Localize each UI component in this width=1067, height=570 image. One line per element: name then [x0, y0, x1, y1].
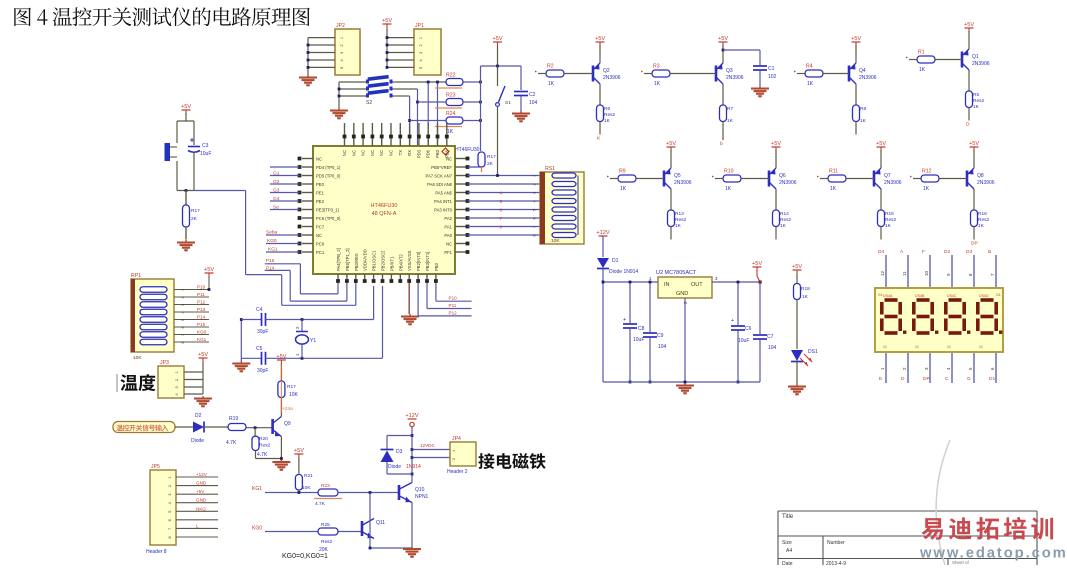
svg-text:PA3 INT0: PA3 INT0 [434, 208, 453, 213]
svg-text:F: F [922, 249, 925, 255]
svg-text:2N3906: 2N3906 [674, 180, 692, 186]
svg-text:1K: 1K [885, 223, 892, 229]
svg-text:GND: GND [196, 498, 207, 503]
svg-text:104: 104 [658, 344, 667, 350]
svg-text:PD6: PD6 [426, 149, 431, 158]
svg-text:10: 10 [924, 270, 929, 276]
svg-text:www.edatop.com: www.edatop.com [919, 546, 1067, 562]
svg-text:10uF: 10uF [633, 337, 644, 343]
svg-text:+5V: +5V [204, 267, 214, 273]
svg-text:3: 3 [419, 52, 423, 54]
svg-text:R18: R18 [801, 286, 810, 292]
svg-text:1K: 1K [654, 81, 661, 87]
svg-text:NC: NC [446, 242, 452, 247]
svg-text:1K: 1K [548, 81, 555, 87]
svg-text:1K: 1K [919, 67, 926, 73]
svg-text:C8: C8 [638, 326, 645, 332]
svg-text:B: B [988, 249, 991, 255]
svg-text:Header 2: Header 2 [447, 469, 468, 475]
svg-text:10K: 10K [133, 355, 142, 361]
svg-text:1K: 1K [725, 186, 732, 192]
svg-text:D1: D1 [612, 258, 619, 264]
svg-text:C2: C2 [529, 92, 536, 98]
svg-text:P10: P10 [449, 296, 458, 301]
svg-text:2N3906: 2N3906 [859, 75, 877, 81]
svg-text:3: 3 [340, 52, 344, 54]
svg-text:4: 4 [181, 311, 185, 313]
svg-text:+5V: +5V [851, 36, 861, 42]
svg-text:S1: S1 [505, 100, 511, 106]
svg-text:R12: R12 [922, 169, 932, 175]
svg-text:Title: Title [782, 514, 794, 520]
svg-text:NC: NC [446, 157, 452, 162]
svg-text:5: 5 [419, 67, 423, 69]
svg-text:R2: R2 [547, 64, 554, 70]
svg-text:1N914: 1N914 [406, 464, 421, 470]
svg-text:PB5[TP1_2]: PB5[TP1_2] [345, 248, 350, 271]
svg-text:Q11: Q11 [376, 520, 385, 526]
svg-text:L: L [196, 523, 199, 528]
svg-text:R20: R20 [259, 436, 268, 442]
svg-text:1K: 1K [807, 81, 814, 87]
svg-text:DS4C: DS4C [947, 294, 957, 298]
svg-text:P12: P12 [449, 310, 458, 315]
svg-text:OUT: OUT [691, 282, 703, 288]
svg-text:12: 12 [883, 345, 887, 349]
svg-text:4: 4 [533, 200, 537, 202]
svg-text:R3: R3 [653, 64, 660, 70]
svg-text:1: 1 [181, 289, 185, 291]
svg-text:JP5: JP5 [151, 464, 160, 470]
svg-text:R11: R11 [829, 169, 838, 175]
svg-text:R24: R24 [446, 111, 456, 117]
svg-text:2: 2 [175, 379, 179, 381]
svg-text:6: 6 [181, 326, 185, 328]
svg-text:P11: P11 [197, 292, 205, 297]
svg-text:+12V: +12V [405, 413, 418, 419]
svg-text:GND: GND [676, 291, 688, 297]
svg-text:PD5 (TP0_0): PD5 (TP0_0) [316, 174, 341, 179]
svg-text:PB0/RES: PB0/RES [354, 253, 359, 271]
svg-text:D2: D2 [195, 413, 202, 419]
svg-text:DP: DP [971, 241, 978, 247]
svg-text:+5V: +5V [876, 141, 886, 147]
svg-text:30pF: 30pF [257, 329, 268, 335]
svg-text:P14: P14 [266, 265, 275, 270]
svg-text:R14: R14 [780, 211, 789, 217]
svg-text:KG0=0,KG0=1: KG0=0,KG0=1 [282, 553, 328, 560]
svg-text:PA6 SDI AN6: PA6 SDI AN6 [427, 182, 452, 187]
svg-text:Q8: Q8 [977, 173, 984, 179]
svg-text:R7: R7 [727, 106, 733, 112]
svg-text:2013-4-9: 2013-4-9 [826, 561, 846, 565]
svg-text:R17: R17 [191, 208, 200, 214]
svg-text:DS4B: DS4B [915, 294, 925, 298]
svg-text:PC6 (TP0_0): PC6 (TP0_0) [316, 216, 341, 221]
svg-text:D: D [966, 122, 970, 128]
svg-text:JP3: JP3 [160, 360, 169, 366]
svg-text:C: C [945, 376, 949, 382]
svg-text:DP: DP [923, 376, 930, 382]
svg-text:+5V: +5V [181, 104, 191, 110]
svg-text:+5V: +5V [666, 141, 676, 147]
svg-text:DS4D: DS4D [979, 294, 989, 298]
svg-text:D: D [901, 376, 905, 382]
svg-text:▸: ▸ [906, 55, 908, 60]
svg-text:10uF: 10uF [738, 338, 749, 344]
svg-text:Q4: Q4 [859, 68, 866, 74]
svg-text:48 QFN-A: 48 QFN-A [372, 211, 397, 217]
svg-text:RS1: RS1 [545, 166, 555, 172]
svg-text:30pF: 30pF [257, 368, 268, 374]
svg-text:P15: P15 [197, 322, 206, 327]
svg-text:7: 7 [181, 334, 185, 336]
svg-text:P10: P10 [197, 285, 206, 290]
svg-text:G1: G1 [273, 171, 280, 177]
svg-text:PB5*VREF: PB5*VREF [431, 165, 452, 170]
svg-text:PA2: PA2 [444, 216, 452, 221]
svg-text:5: 5 [340, 67, 344, 69]
svg-text:NC: NC [370, 150, 375, 156]
svg-text:+24a: +24a [282, 406, 293, 412]
svg-text:PB3[INT1]: PB3[INT1] [425, 252, 430, 271]
svg-text:10K: 10K [551, 238, 560, 244]
svg-text:3: 3 [168, 494, 172, 496]
svg-text:Res2: Res2 [780, 217, 792, 223]
svg-text:6: 6 [533, 217, 537, 219]
svg-text:VSS/AVSS: VSS/AVSS [407, 250, 412, 271]
svg-text:Y1: Y1 [310, 338, 316, 344]
svg-text:10K: 10K [302, 485, 311, 491]
svg-text:D3: D3 [966, 249, 972, 255]
svg-text:2: 2 [533, 183, 537, 185]
svg-text:TX: TX [398, 150, 403, 156]
svg-text:12: 12 [947, 345, 951, 349]
svg-text:2N3906: 2N3906 [726, 75, 744, 81]
svg-text:1K: 1K [802, 294, 809, 300]
svg-text:PB2/OSC2: PB2/OSC2 [381, 250, 386, 271]
svg-text:R19: R19 [229, 416, 238, 422]
svg-text:4: 4 [419, 59, 423, 61]
svg-text:NC: NC [351, 150, 356, 156]
svg-text:C4: C4 [256, 307, 263, 313]
svg-text:VDDA/VDD: VDDA/VDD [363, 249, 368, 271]
svg-text:2K: 2K [487, 161, 494, 167]
svg-text:2: 2 [452, 458, 456, 460]
svg-text:R1: R1 [918, 50, 925, 56]
svg-text:Number: Number [827, 540, 845, 546]
svg-text:KG1: KG1 [252, 486, 262, 492]
svg-text:Q6: Q6 [779, 173, 786, 179]
svg-text:R17: R17 [287, 384, 296, 390]
svg-text:DS4A: DS4A [883, 294, 893, 298]
svg-text:PD4 (TP0_1): PD4 (TP0_1) [316, 165, 341, 170]
svg-text:PC0: PC0 [316, 242, 325, 247]
svg-text:R23: R23 [321, 483, 330, 489]
svg-text:JP2: JP2 [336, 23, 345, 29]
svg-text:3: 3 [181, 304, 185, 306]
svg-text:NC: NC [316, 157, 322, 162]
svg-text:2N3906: 2N3906 [884, 180, 902, 186]
svg-text:NC: NC [361, 150, 366, 156]
svg-text:HT46FU30: HT46FU30 [371, 203, 398, 209]
svg-text:NC: NC [379, 150, 384, 156]
svg-text:PA4 INT1: PA4 INT1 [434, 199, 453, 204]
svg-text:5: 5 [181, 319, 185, 321]
svg-text:D3: D3 [396, 449, 403, 455]
svg-text:G3: G3 [273, 188, 280, 194]
svg-text:3: 3 [533, 192, 537, 194]
svg-text:C1: C1 [768, 66, 775, 72]
svg-text:+5V: +5V [382, 18, 392, 24]
svg-text:JP1: JP1 [415, 23, 424, 29]
svg-text:1K: 1K [447, 129, 454, 135]
svg-text:Q5: Q5 [674, 173, 681, 179]
svg-text:Q2: Q2 [603, 68, 610, 74]
svg-text:S2: S2 [366, 100, 372, 106]
svg-text:R23: R23 [446, 93, 456, 99]
svg-text:5: 5 [533, 209, 537, 211]
svg-text:Seba: Seba [266, 230, 278, 236]
svg-text:C3: C3 [202, 143, 209, 149]
svg-text:Diode 1N914: Diode 1N914 [609, 269, 638, 275]
svg-text:4.7K: 4.7K [315, 501, 326, 507]
svg-text:12: 12 [979, 345, 983, 349]
svg-text:+5V: +5V [198, 352, 208, 358]
svg-text:IN: IN [664, 282, 670, 288]
svg-text:D1: D1 [989, 376, 995, 382]
svg-text:11: 11 [902, 271, 907, 276]
svg-text:+12V: +12V [196, 472, 208, 477]
svg-text:RP1: RP1 [131, 273, 141, 279]
svg-text:1K: 1K [860, 118, 867, 124]
svg-text:4: 4 [175, 393, 179, 395]
svg-text:6: 6 [168, 519, 172, 521]
svg-text:R21: R21 [304, 473, 313, 479]
svg-text:Q3: Q3 [726, 68, 733, 74]
svg-text:2: 2 [419, 44, 423, 46]
svg-text:A4: A4 [786, 548, 792, 554]
svg-text:PD3: PD3 [416, 149, 421, 158]
svg-text:b: b [720, 141, 723, 147]
svg-text:12VDC: 12VDC [420, 443, 435, 448]
svg-text:1: 1 [419, 37, 423, 39]
svg-text:PC1: PC1 [316, 250, 325, 255]
svg-text:7: 7 [533, 226, 537, 228]
svg-text:PB0: PB0 [434, 262, 439, 271]
svg-text:Q7: Q7 [884, 173, 891, 179]
svg-text:PB1/OSC1: PB1/OSC1 [372, 250, 377, 271]
svg-text:NPN1: NPN1 [415, 494, 429, 500]
svg-text:R15: R15 [885, 211, 894, 217]
svg-text:D4: D4 [878, 249, 884, 255]
svg-text:Q9: Q9 [284, 421, 291, 427]
svg-text:+5V: +5V [964, 22, 974, 28]
svg-text:Se: Se [273, 205, 279, 211]
svg-text:PC7: PC7 [316, 225, 325, 230]
svg-text:1: 1 [533, 175, 537, 177]
svg-text:R16: R16 [978, 211, 987, 217]
svg-text:▸: ▸ [794, 69, 796, 74]
svg-text:Res2: Res2 [604, 112, 616, 118]
svg-text:D2: D2 [944, 249, 950, 255]
svg-text:▸: ▸ [535, 69, 537, 74]
svg-text:C6: C6 [745, 326, 752, 332]
svg-text:PE3(TP3_1): PE3(TP3_1) [316, 208, 340, 213]
svg-text:4: 4 [340, 59, 344, 61]
svg-text:4: 4 [168, 502, 172, 504]
svg-text:2N3906: 2N3906 [977, 180, 995, 186]
svg-text:R4: R4 [806, 64, 813, 70]
svg-text:+5V: +5V [276, 354, 286, 360]
svg-text:R8: R8 [860, 106, 866, 112]
svg-text:▸: ▸ [641, 69, 643, 74]
svg-text:P14: P14 [197, 315, 206, 320]
svg-text:+5V: +5V [969, 141, 979, 147]
svg-text:▸: ▸ [910, 174, 912, 179]
svg-text:1K: 1K [620, 186, 627, 192]
svg-text:PA5 AN5: PA5 AN5 [435, 191, 452, 196]
svg-text:Q1: Q1 [972, 54, 979, 60]
svg-text:8: 8 [181, 341, 185, 343]
svg-text:G4: G4 [273, 196, 280, 202]
svg-text:1: 1 [168, 476, 172, 478]
svg-text:PA7 SCK AN7: PA7 SCK AN7 [426, 174, 453, 179]
svg-text:R13: R13 [675, 211, 684, 217]
svg-text:Res2: Res2 [978, 217, 990, 223]
svg-text:KG0: KG0 [267, 238, 277, 244]
svg-text:3: 3 [175, 386, 179, 388]
svg-text:Res2: Res2 [259, 443, 271, 449]
svg-text:2K: 2K [191, 216, 198, 222]
svg-text:PE1: PE1 [316, 191, 325, 196]
svg-text:PB3: PB3 [435, 149, 440, 158]
svg-text:+5V: +5V [294, 448, 304, 454]
svg-text:▸: ▸ [817, 174, 819, 179]
svg-text:KG1: KG1 [268, 247, 278, 253]
svg-text:Header 8: Header 8 [146, 549, 167, 555]
svg-text:Diode: Diode [191, 438, 204, 444]
svg-text:10uF: 10uF [200, 151, 211, 157]
svg-text:PE2: PE2 [316, 199, 325, 204]
svg-text:C9: C9 [657, 333, 664, 339]
svg-text:+5V: +5V [792, 264, 802, 270]
svg-text:C7: C7 [767, 334, 774, 340]
svg-text:1K: 1K [830, 186, 837, 192]
svg-text:G: G [967, 376, 971, 382]
svg-text:1: 1 [452, 450, 456, 452]
svg-text:HT46FU30: HT46FU30 [455, 147, 480, 153]
svg-text:NC: NC [316, 233, 322, 238]
svg-text:Res2: Res2 [675, 217, 687, 223]
svg-text:PF1: PF1 [444, 250, 452, 255]
svg-text:PA1: PA1 [444, 225, 452, 230]
svg-text:+: + [731, 318, 734, 324]
svg-text:12: 12 [880, 270, 885, 276]
svg-text:Res2: Res2 [973, 98, 985, 104]
svg-text:Date: Date [782, 561, 793, 565]
svg-text:+5V: +5V [595, 36, 605, 42]
svg-text:Q10: Q10 [415, 487, 425, 493]
svg-text:PB2[INT0]: PB2[INT0] [416, 252, 421, 271]
svg-text:1: 1 [340, 37, 344, 39]
svg-text:2: 2 [168, 485, 172, 487]
svg-text:NC: NC [389, 150, 394, 156]
svg-text:+: + [623, 317, 626, 323]
svg-text:PE0: PE0 [316, 182, 325, 187]
svg-text:R17: R17 [487, 154, 496, 160]
svg-text:R5: R5 [973, 92, 979, 98]
svg-text:1K: 1K [727, 118, 734, 124]
svg-text:C5: C5 [256, 346, 263, 352]
svg-text:JP4: JP4 [452, 436, 461, 442]
svg-text:P13: P13 [197, 307, 206, 312]
svg-text:1K: 1K [978, 223, 985, 229]
svg-text:GND: GND [196, 481, 207, 486]
svg-text:P15: P15 [266, 258, 275, 263]
svg-text:▸: ▸ [712, 174, 714, 179]
svg-text:4.7K: 4.7K [257, 452, 268, 458]
svg-text:5: 5 [168, 511, 172, 513]
svg-text:NC: NC [342, 150, 347, 156]
svg-text:Diode: Diode [388, 464, 401, 470]
svg-text:+5V: +5V [771, 141, 781, 147]
svg-text:G1: G1 [878, 293, 883, 297]
svg-text:104: 104 [768, 345, 777, 351]
svg-text:PA0: PA0 [444, 233, 452, 238]
svg-text:1K: 1K [973, 104, 980, 110]
svg-text:PB4/XT2: PB4/XT2 [398, 254, 403, 271]
svg-text:10K: 10K [289, 392, 299, 398]
svg-text:4.7K: 4.7K [226, 440, 237, 446]
svg-text:G4: G4 [996, 293, 1001, 297]
svg-text:8: 8 [168, 536, 172, 538]
svg-text:P11: P11 [449, 303, 457, 308]
svg-text:Size: Size [782, 540, 792, 546]
svg-text:KG0: KG0 [197, 330, 207, 335]
svg-text:▸: ▸ [607, 174, 609, 179]
svg-text:+5V: +5V [752, 261, 762, 267]
svg-text:2N3906: 2N3906 [779, 180, 797, 186]
svg-text:DS1: DS1 [808, 349, 818, 355]
svg-text:RX: RX [407, 150, 412, 156]
svg-text:R6: R6 [604, 106, 610, 112]
svg-text:E: E [879, 376, 882, 382]
svg-text:1K: 1K [604, 118, 611, 124]
svg-text:R25: R25 [321, 522, 330, 528]
svg-text:1: 1 [175, 371, 179, 373]
svg-text:+12V: +12V [596, 230, 609, 236]
svg-text:PB/XT1: PB/XT1 [389, 256, 394, 271]
svg-text:+5V: +5V [196, 489, 205, 494]
svg-text:PA4[TPB_2]: PA4[TPB_2] [336, 248, 341, 271]
svg-text:2: 2 [340, 44, 344, 46]
svg-text:KG1: KG1 [197, 337, 207, 342]
svg-text:1K: 1K [780, 223, 787, 229]
svg-text:P12: P12 [197, 300, 206, 305]
svg-text:2N3906: 2N3906 [972, 61, 990, 67]
svg-text:R22: R22 [446, 73, 456, 79]
svg-text:G2: G2 [273, 179, 280, 185]
svg-text:104: 104 [529, 100, 538, 106]
svg-text:2N3906: 2N3906 [603, 75, 621, 81]
svg-text:Res2: Res2 [885, 217, 897, 223]
svg-text:Res2: Res2 [321, 539, 333, 545]
svg-text:R9: R9 [619, 169, 626, 175]
svg-text:12: 12 [915, 345, 919, 349]
svg-text:1K: 1K [923, 186, 930, 192]
svg-text:102: 102 [768, 74, 777, 80]
